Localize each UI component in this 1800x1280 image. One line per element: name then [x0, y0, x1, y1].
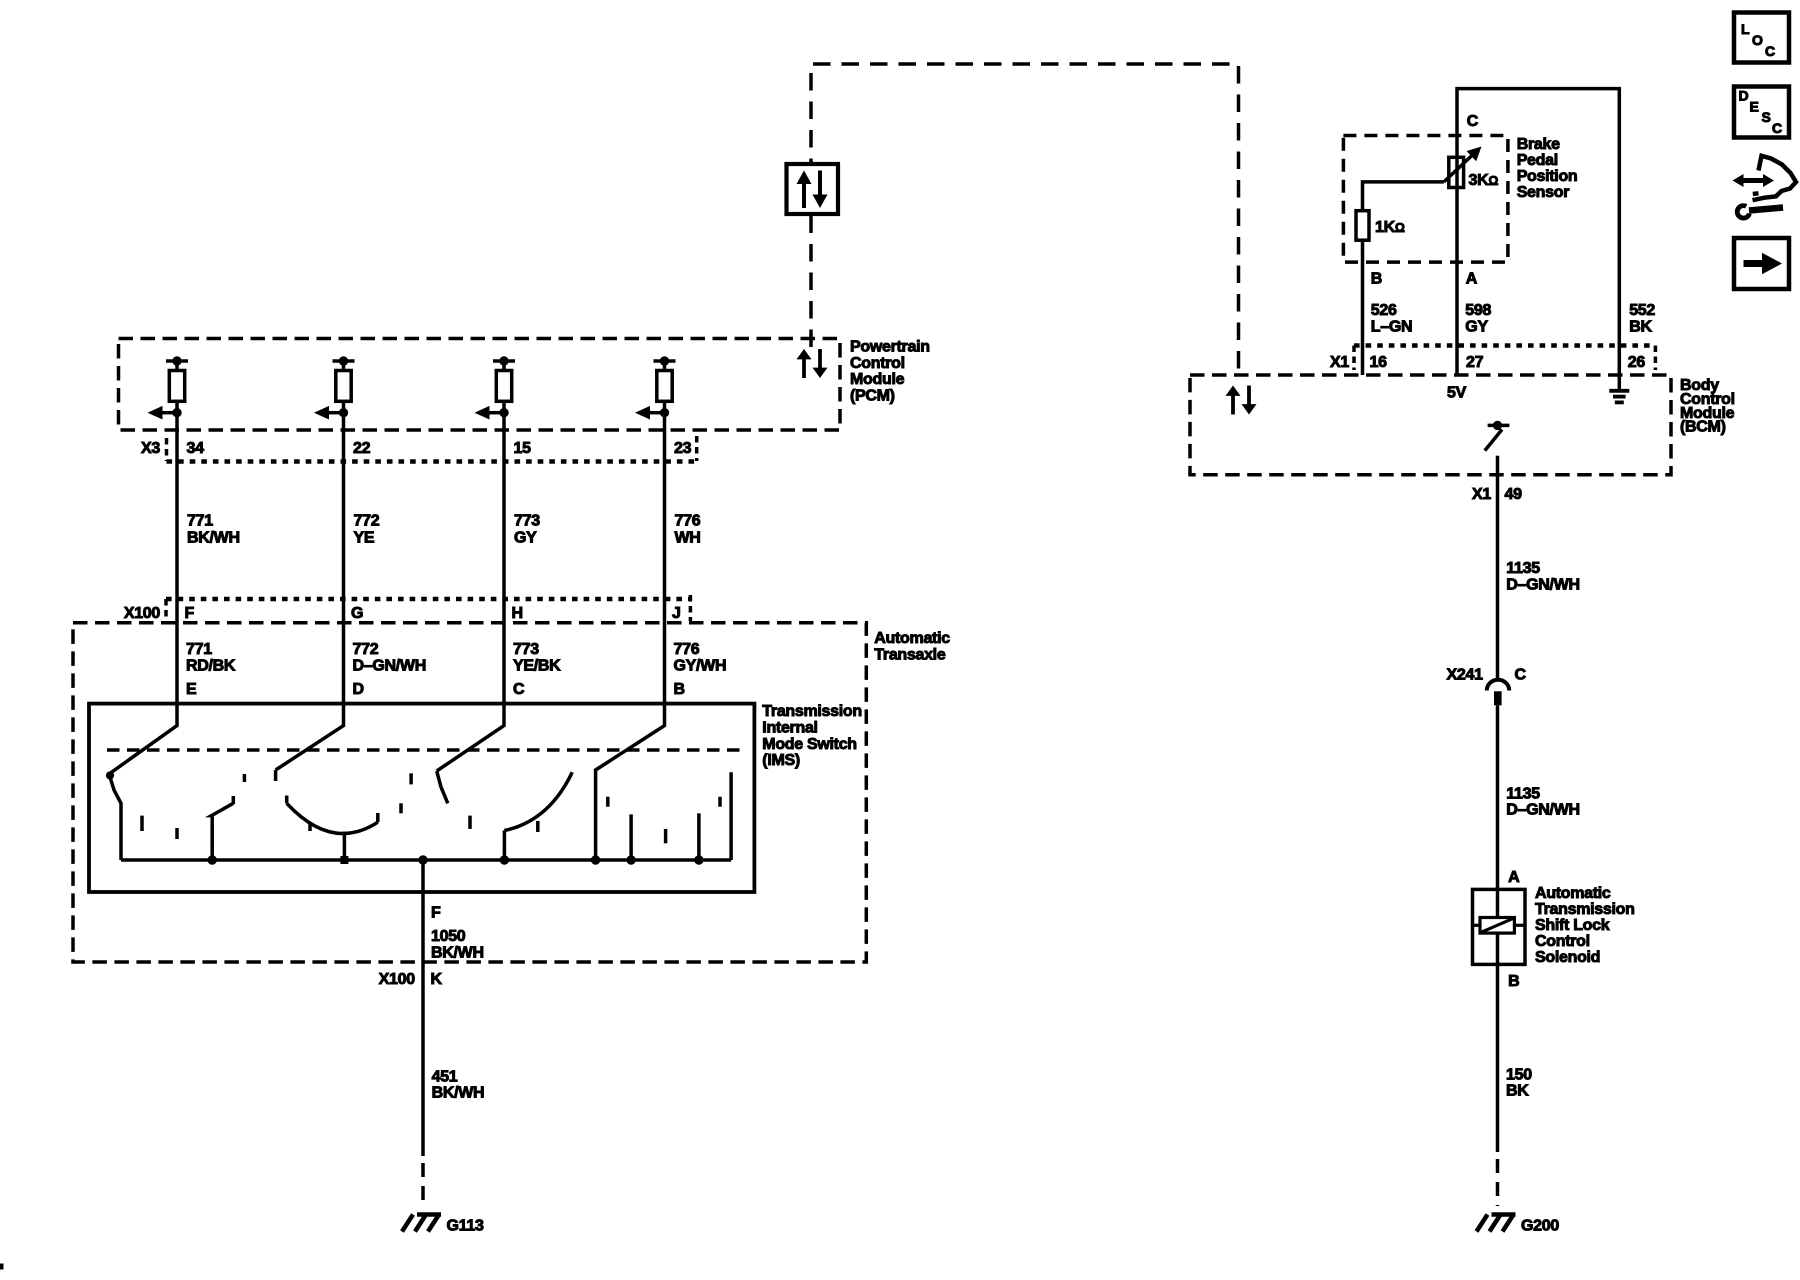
wire 1050 BK/WH (IMS F to X100 K): [421, 860, 425, 1156]
resistor 1K: [1356, 211, 1369, 241]
svg-text:RD/BK: RD/BK: [186, 658, 236, 675]
X1 pin labels 16 27 26: [1370, 354, 1646, 371]
connector X3 label row: [141, 440, 160, 457]
svg-text:Pedal: Pedal: [1517, 152, 1558, 169]
IMS mechanical linkage (dashed): [107, 748, 741, 752]
label wire 1135 D-GN/WH (upper): [1506, 560, 1579, 593]
sensor label: [1517, 136, 1578, 201]
svg-text:WH: WH: [675, 530, 701, 547]
svg-text:X100: X100: [379, 971, 416, 988]
IMS switch finger D: [276, 704, 344, 781]
IMS wiper (section D): [208, 796, 233, 864]
svg-text:771: 771: [187, 513, 213, 530]
svg-text:BK/WH: BK/WH: [187, 530, 240, 547]
connector X3 body (dotted): [167, 436, 697, 462]
label wire 451 BK/WH: [432, 1069, 485, 1102]
svg-text:772: 772: [353, 641, 379, 658]
resistor R3 (PCM driver): [493, 357, 515, 430]
signal arrow at R4: [635, 406, 669, 420]
svg-text:Internal: Internal: [762, 719, 817, 736]
svg-text:YE: YE: [354, 530, 375, 547]
svg-text:1KΩ: 1KΩ: [1375, 219, 1405, 236]
brake pedal sensor wire loop (C to 552): [1457, 89, 1619, 375]
svg-text:B: B: [1508, 973, 1519, 990]
label wire 1050 BK/WH: [431, 928, 484, 961]
label 5V: [1447, 385, 1467, 402]
connector X1 body (dotted): [1354, 346, 1655, 371]
solenoid pin B label: [1508, 973, 1519, 990]
label wire 771 RD/BK (transaxle side): [186, 641, 236, 675]
signal arrow at R3: [475, 406, 509, 420]
svg-text:Module: Module: [850, 371, 905, 388]
label wire 776 GY/WH (transaxle side): [674, 641, 727, 675]
X241 labels: [1447, 667, 1527, 684]
resistor R1 (PCM driver): [166, 357, 188, 430]
connector X100 label: [124, 605, 161, 622]
svg-text:H: H: [512, 605, 523, 622]
sensor pin C label: [1467, 113, 1479, 130]
svg-text:451: 451: [432, 1069, 458, 1086]
svg-text:BK/WH: BK/WH: [431, 944, 484, 961]
svg-text:K: K: [431, 971, 443, 988]
Automatic Transaxle box: [73, 623, 866, 962]
svg-text:552: 552: [1629, 302, 1655, 319]
svg-text:773: 773: [514, 513, 540, 530]
svg-text:C: C: [1515, 667, 1527, 684]
svg-text:26: 26: [1628, 354, 1646, 371]
svg-text:Shift Lock: Shift Lock: [1535, 917, 1610, 934]
svg-text:771: 771: [186, 641, 212, 658]
svg-text:D–GN/WH: D–GN/WH: [1506, 577, 1579, 594]
svg-text:Transaxle: Transaxle: [874, 646, 946, 663]
label wire 773 GY: [514, 513, 540, 547]
wiper wire: [1363, 182, 1444, 211]
svg-text:BK: BK: [1506, 1083, 1529, 1100]
svg-text:F: F: [431, 905, 441, 922]
svg-text:X241: X241: [1447, 667, 1484, 684]
connector X241: [1487, 680, 1509, 706]
svg-text:GY: GY: [514, 530, 537, 547]
svg-text:Transmission: Transmission: [762, 703, 862, 720]
solenoid pin A label: [1508, 869, 1520, 886]
resistor R4 (PCM driver): [654, 357, 676, 430]
svg-text:BK: BK: [1629, 318, 1652, 335]
wire 772 YE (PCM to X100): [342, 430, 346, 704]
svg-text:15: 15: [514, 440, 532, 457]
BCM internal switch: [1485, 421, 1510, 475]
PCM serial data arrows: [797, 349, 828, 378]
IMS pin C: [513, 681, 525, 698]
svg-text:Solenoid: Solenoid: [1535, 949, 1600, 966]
svg-text:Brake: Brake: [1517, 136, 1560, 153]
svg-text:C: C: [1467, 113, 1479, 130]
serial data symbol box: [787, 164, 839, 214]
variable resistor 3K (sensor element): [1444, 147, 1482, 188]
svg-text:E: E: [1750, 99, 1759, 115]
IMS switch finger C: [437, 704, 504, 803]
wire 526 (1K to BCM): [1361, 240, 1365, 375]
serial data wire (dashed, PCM to BCM): [811, 64, 1239, 379]
resistor R2 (PCM driver): [333, 357, 355, 430]
svg-text:YE/BK: YE/BK: [513, 658, 561, 675]
Automatic Transaxle label: [874, 630, 950, 663]
label wire 772 D–GN/WH (transaxle side): [353, 641, 426, 675]
IMS pin E: [186, 681, 197, 698]
label wire 773 YE/BK (transaxle side): [513, 641, 561, 675]
connector X1 label: [1330, 354, 1349, 371]
IMS contact ticks (section E): [142, 816, 177, 839]
ground G200: [1477, 1215, 1516, 1232]
svg-text:16: 16: [1370, 354, 1388, 371]
svg-text:49: 49: [1505, 486, 1523, 503]
svg-text:D–GN/WH: D–GN/WH: [353, 658, 426, 675]
IMS contact arc (section C): [500, 772, 572, 864]
svg-text:Position: Position: [1517, 168, 1578, 185]
svg-text:Powertrain: Powertrain: [850, 338, 930, 355]
Automatic Transmission Shift Lock Control Solenoid: [1473, 889, 1526, 964]
svg-text:772: 772: [354, 513, 380, 530]
svg-text:1135: 1135: [1506, 785, 1540, 802]
wire 1135 (BCM X1-49 to X241): [1496, 475, 1500, 679]
harness routing icon (double arrow + outline + wrench): [1733, 156, 1797, 218]
sensor pin A label: [1466, 271, 1478, 288]
page edge mark: [0, 1264, 4, 1270]
next-page arrow icon box: [1734, 238, 1789, 289]
svg-text:773: 773: [513, 641, 539, 658]
svg-text:1135: 1135: [1506, 560, 1540, 577]
connector X3 pin labels 34 22 15 23: [187, 440, 692, 457]
svg-text:150: 150: [1506, 1067, 1532, 1084]
svg-text:E: E: [186, 681, 197, 698]
label wire 772 YE: [354, 513, 380, 547]
svg-text:L: L: [1741, 21, 1750, 37]
connector X1 pin 49 labels: [1472, 486, 1522, 503]
svg-text:3KΩ: 3KΩ: [1469, 172, 1499, 189]
svg-text:C: C: [1772, 120, 1782, 136]
node F junction: [419, 856, 427, 864]
IMS pin D: [353, 681, 364, 698]
label wire 552 BK: [1629, 302, 1655, 335]
IMS common bus: [121, 858, 731, 862]
svg-text:Transmission: Transmission: [1535, 901, 1635, 918]
svg-text:X100: X100: [124, 605, 161, 622]
solenoid label: [1535, 885, 1635, 966]
svg-text:A: A: [1508, 869, 1520, 886]
svg-text:X1: X1: [1472, 486, 1491, 503]
svg-text:F: F: [185, 605, 195, 622]
label wire 1135 D-GN/WH (lower): [1506, 785, 1579, 818]
IMS contacts (section B): [608, 772, 731, 864]
svg-text:C: C: [1765, 43, 1775, 59]
svg-text:BK/WH: BK/WH: [432, 1085, 485, 1102]
LOC icon box: [1734, 13, 1789, 63]
IMS switch finger B: [591, 704, 664, 864]
svg-text:(BCM): (BCM): [1680, 419, 1726, 436]
svg-text:776: 776: [674, 641, 700, 658]
svg-text:D: D: [1739, 88, 1749, 104]
signal arrow at R1: [148, 406, 182, 420]
svg-text:Control: Control: [1535, 933, 1590, 950]
IMS contact arc (section D): [287, 796, 378, 865]
IMS pin F label: [431, 905, 441, 922]
svg-text:X3: X3: [141, 440, 160, 457]
svg-text:526: 526: [1371, 302, 1397, 319]
signal arrow at R2: [314, 406, 348, 420]
svg-text:27: 27: [1466, 354, 1484, 371]
connector X100 K labels: [379, 971, 443, 988]
svg-text:23: 23: [674, 440, 692, 457]
DESC icon box: [1734, 87, 1789, 138]
svg-text:G113: G113: [447, 1218, 484, 1235]
Brake Pedal Position Sensor box: [1343, 136, 1508, 263]
svg-text:Mode Switch: Mode Switch: [762, 736, 856, 753]
ground G113: [402, 1215, 441, 1232]
label wire 598 GY: [1465, 302, 1491, 335]
svg-text:L–GN: L–GN: [1371, 318, 1412, 335]
label wire 150 BK: [1506, 1067, 1532, 1100]
wire 771 BK/WH (PCM to X100): [175, 430, 179, 704]
svg-text:Automatic: Automatic: [874, 630, 950, 647]
IMS pin B: [674, 681, 685, 698]
wire 1135 D-GN/WH (X241 to solenoid): [1496, 705, 1500, 889]
wire 776 WH (PCM to X100): [663, 430, 667, 704]
svg-text:34: 34: [187, 440, 205, 457]
svg-text:Sensor: Sensor: [1517, 184, 1570, 201]
svg-text:S: S: [1762, 109, 1771, 125]
BCM serial data arrows: [1226, 386, 1257, 415]
svg-text:J: J: [672, 605, 681, 622]
svg-text:C: C: [513, 681, 525, 698]
label wire 776 WH: [675, 513, 701, 547]
label 3K ohm: [1469, 172, 1499, 189]
IMS contact ticks (section C): [411, 773, 538, 832]
wire 598 (3K to BCM): [1455, 188, 1459, 376]
svg-text:G200: G200: [1521, 1218, 1559, 1235]
IMS switch finger E: [106, 704, 177, 860]
Transmission Internal Mode Switch box: [89, 704, 754, 892]
svg-text:B: B: [674, 681, 685, 698]
label wire 526 L-GN: [1371, 302, 1412, 335]
svg-text:Automatic: Automatic: [1535, 885, 1611, 902]
connector X100 body (dotted, top): [166, 595, 690, 621]
wire to ground G200 (dashed): [1496, 1159, 1500, 1206]
X100 pin labels F G H J: [185, 605, 681, 622]
svg-text:Control: Control: [850, 355, 905, 372]
svg-text:D: D: [353, 681, 364, 698]
svg-text:A: A: [1466, 271, 1478, 288]
svg-text:(PCM): (PCM): [850, 388, 895, 405]
svg-text:GY/WH: GY/WH: [674, 658, 727, 675]
BCM label: [1680, 377, 1735, 436]
wire 773 GY (PCM to X100): [502, 430, 506, 704]
PCM label: [850, 338, 930, 404]
label wire 771 BK/WH: [187, 513, 240, 547]
svg-text:B: B: [1371, 271, 1382, 288]
IMS contact ticks (section D): [244, 774, 401, 831]
svg-text:1050: 1050: [431, 928, 466, 945]
svg-text:(IMS): (IMS): [762, 752, 800, 769]
svg-text:22: 22: [353, 440, 371, 457]
svg-text:5V: 5V: [1447, 385, 1467, 402]
svg-text:D–GN/WH: D–GN/WH: [1506, 802, 1579, 819]
svg-text:776: 776: [675, 513, 701, 530]
wire to ground G113 (dashed): [421, 1163, 425, 1206]
PCM module box: [119, 339, 841, 431]
svg-text:598: 598: [1465, 302, 1491, 319]
label 1K ohm: [1375, 219, 1405, 236]
svg-text:O: O: [1752, 32, 1763, 48]
IMS label: [762, 703, 862, 769]
svg-text:G: G: [351, 605, 363, 622]
wire 150 BK (solenoid to G200): [1496, 964, 1500, 1152]
Body Control Module box: [1190, 375, 1671, 475]
svg-text:X1: X1: [1330, 354, 1349, 371]
svg-text:GY: GY: [1465, 318, 1488, 335]
sensor pin B label: [1371, 271, 1382, 288]
BCM internal ground (pin 26): [1609, 375, 1629, 402]
